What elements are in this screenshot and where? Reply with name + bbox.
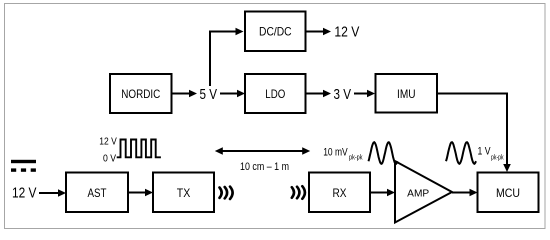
wire AST to TX [129, 189, 154, 197]
svg-text:DC/DC: DC/DC [259, 25, 292, 39]
svg-text:LDO: LDO [265, 87, 285, 101]
svg-text:1 V: 1 V [478, 145, 492, 157]
svg-text:RX: RX [333, 186, 347, 200]
distance double arrow [215, 147, 310, 155]
svg-text:0 V: 0 V [103, 153, 116, 164]
block MCU [478, 173, 539, 213]
svg-text:12 V: 12 V [334, 24, 359, 41]
svg-text:IMU: IMU [397, 87, 416, 101]
svg-text:pk-pk: pk-pk [349, 153, 363, 162]
block NORDIC [110, 74, 172, 113]
svg-text:TX: TX [177, 186, 191, 200]
wire 5V node up to DC/DC [210, 28, 244, 86]
wire NORDIC to 5V node [172, 90, 198, 98]
svg-text:10 cm – 1 m: 10 cm – 1 m [240, 161, 289, 173]
block TX [153, 173, 214, 213]
wire DC/DC to 12V label [306, 28, 331, 36]
antenna TX [220, 187, 233, 199]
wire LDO to 3V node [306, 90, 331, 98]
sine wave at AMP/MCU [446, 142, 476, 164]
svg-text:3 V: 3 V [334, 86, 352, 103]
antenna RX [292, 186, 305, 199]
block LDO [245, 74, 306, 113]
wire IMU to MCU (right and down) [438, 94, 511, 173]
block AST [66, 173, 128, 213]
svg-text:AMP: AMP [407, 189, 429, 200]
wire RX to AMP [371, 189, 396, 197]
sine wave at RX/AMP [369, 142, 398, 164]
block RX [309, 173, 370, 213]
wire 3V node to IMU [354, 90, 375, 98]
wire AMP to MCU [452, 189, 478, 197]
svg-text:12 V: 12 V [99, 136, 117, 147]
block DC/DC [245, 12, 306, 52]
svg-text:12 V: 12 V [12, 185, 37, 202]
DC supply symbol [11, 160, 36, 172]
label 10 mV pk-pk [323, 146, 362, 161]
svg-text:NORDIC: NORDIC [121, 87, 160, 101]
svg-text:10 mV: 10 mV [323, 146, 348, 158]
amplifier AMP triangle [395, 161, 452, 223]
wire 5V node to LDO [220, 90, 245, 98]
square wave (clock) [117, 140, 161, 158]
svg-text:5 V: 5 V [200, 86, 218, 103]
svg-text:MCU: MCU [496, 186, 520, 200]
block IMU [376, 74, 438, 113]
wire 12V to AST [39, 189, 66, 197]
label 1 V pk-pk [478, 145, 504, 161]
svg-text:AST: AST [88, 186, 108, 200]
svg-text:pk-pk: pk-pk [491, 153, 504, 162]
